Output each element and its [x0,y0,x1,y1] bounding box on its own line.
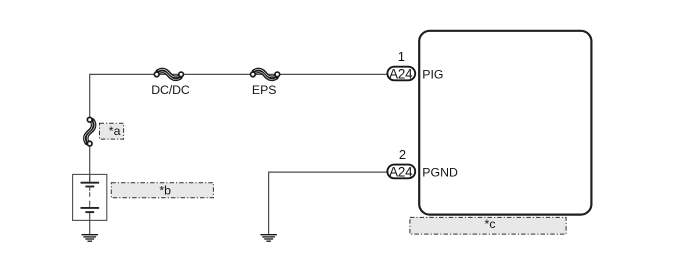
note box *b [111,183,213,198]
svg-text:2: 2 [399,147,406,162]
connector A24 pin 1 (PIG) [387,66,415,81]
connector A24 pin 2 (PGND) [387,164,415,179]
note box *a [100,123,124,139]
wire: left vertical from top wire down to fusible link [89,74,91,118]
fusible link (vertical, *a) [84,117,94,146]
wire: PGND vertical drop to ground [268,172,270,235]
svg-text:*b: *b [159,184,171,198]
note box *c [410,217,566,234]
svg-text:A24: A24 [389,66,413,81]
ground (battery) [82,235,98,242]
svg-text:*c: *c [485,217,496,231]
fuse EPS [251,69,280,79]
wire: fusible link to battery [89,146,91,182]
svg-text:PIG: PIG [422,68,443,82]
ground (PGND drop) [260,235,276,242]
wire: top horizontal run from battery branch to PIG connector [90,73,387,75]
svg-text:A24: A24 [389,164,413,179]
svg-text:PGND: PGND [422,166,458,180]
svg-text:DC/DC: DC/DC [151,83,190,97]
svg-text:EPS: EPS [252,83,277,97]
wire: PGND horizontal run [269,171,387,173]
battery [73,174,107,220]
ECU box (power steering ECU) [419,31,591,215]
fuse DC/DC [154,69,183,79]
svg-text:1: 1 [398,49,405,64]
svg-text:*a: *a [109,124,121,138]
wire: battery to ground [89,212,91,234]
